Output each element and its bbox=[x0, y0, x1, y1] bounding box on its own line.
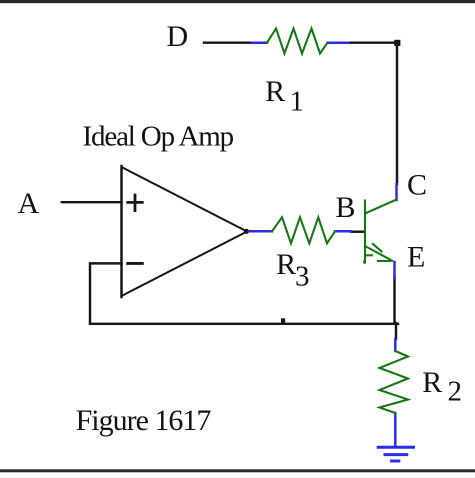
svg-text:D: D bbox=[167, 20, 189, 53]
svg-text:R: R bbox=[276, 248, 296, 281]
svg-text:1: 1 bbox=[290, 86, 305, 118]
svg-text:B: B bbox=[336, 191, 356, 224]
svg-text:2: 2 bbox=[448, 376, 463, 408]
svg-text:3: 3 bbox=[295, 261, 310, 293]
svg-text:Ideal Op Amp: Ideal Op Amp bbox=[83, 121, 234, 153]
svg-text:C: C bbox=[407, 169, 427, 202]
svg-text:R: R bbox=[265, 75, 285, 108]
svg-text:A: A bbox=[18, 187, 40, 220]
svg-text:R: R bbox=[422, 366, 442, 399]
svg-text:Figure 1617: Figure 1617 bbox=[76, 404, 212, 437]
svg-text:E: E bbox=[407, 240, 425, 273]
